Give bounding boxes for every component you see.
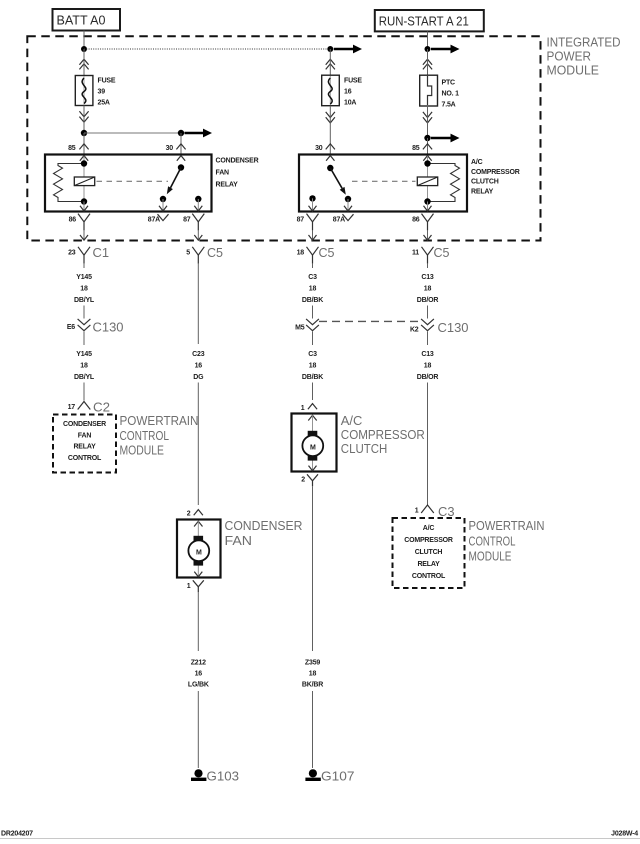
svg-text:86: 86 (412, 217, 420, 224)
svg-text:J028W-4: J028W-4 (611, 831, 638, 838)
node relay K2 coil bottom pin 86 (424, 198, 430, 204)
wire C13 lower segment (427, 332, 429, 346)
svg-text:25A: 25A (98, 100, 110, 107)
wire node to relay pin 85 left (83, 133, 85, 155)
pin 87A label (148, 217, 160, 224)
arrow fused B+ continues (185, 129, 213, 138)
wire a/c clutch pin 2 down (312, 486, 314, 651)
connector C130 name (right) (438, 321, 469, 335)
arrow a/c clutch pin 2 to box edge (309, 466, 317, 471)
svg-text:PTC: PTC (442, 80, 456, 87)
svg-text:C23: C23 (192, 351, 205, 358)
svg-text:16: 16 (344, 89, 352, 96)
connector C130 tie line (dashed) (319, 320, 421, 322)
relay K2 a/c compressor clutch relay box (299, 155, 467, 212)
junction node fused B+ left (81, 130, 87, 136)
svg-text:1: 1 (187, 583, 191, 590)
pin 11 label (412, 250, 419, 257)
svg-text:CONDENSER: CONDENSER (63, 421, 106, 428)
relay K1 coil wire and resistor (54, 156, 85, 202)
svg-text:FAN: FAN (78, 433, 92, 440)
pin 87 label (183, 217, 191, 224)
svg-text:COMPRESSOR: COMPRESSOR (404, 537, 453, 544)
svg-text:CLUTCH: CLUTCH (415, 549, 443, 556)
wire fused B+ branch (84, 132, 181, 134)
inline connection below fuse 16 (326, 112, 335, 123)
label A/C COMPRESSOR CLUTCH (341, 414, 425, 456)
pin 2 inner chevron condenser fan (194, 521, 202, 526)
svg-text:87A: 87A (148, 217, 160, 224)
label G107 (321, 770, 355, 784)
svg-text:30: 30 (315, 145, 323, 152)
connector C5 name (pin 11) (434, 246, 450, 260)
svg-text:RELAY: RELAY (216, 182, 239, 189)
svg-text:DB/YL: DB/YL (74, 297, 95, 304)
pin 17 label (68, 404, 76, 411)
wire PTC to node (427, 106, 429, 138)
svg-text:RELAY: RELAY (471, 188, 494, 195)
svg-text:18: 18 (424, 363, 432, 370)
svg-text:23: 23 (68, 250, 76, 257)
wire fuse 16 to relay pin 30 (329, 106, 331, 155)
svg-text:Y145: Y145 (76, 351, 92, 358)
wire node to relay pin 30 left (180, 133, 182, 155)
pin 85 entry chevron (79, 144, 88, 150)
svg-text:1: 1 (415, 508, 419, 515)
pin 30 inner chevron (177, 156, 185, 161)
arrow at IPM boundary (80, 235, 88, 240)
wire relay K2 pin 87 to C5 (312, 230, 314, 239)
connector C5 pin 11 Y symbol (422, 247, 434, 264)
pin 85 inner chevron (80, 156, 88, 161)
wire C3 to C130 (312, 306, 314, 319)
wire C23 from C5 (197, 264, 199, 344)
relay K2 actuating link (dashed) (352, 180, 416, 182)
pin 87A label a/c relay (333, 217, 345, 224)
pin 1 label PCM C3 (415, 508, 419, 515)
svg-text:M5: M5 (295, 325, 305, 332)
integrated power module boundary (dashed) (27, 36, 540, 240)
relay K2 coil wire and resistor (428, 156, 460, 202)
pin K2 label (410, 327, 419, 334)
svg-text:16: 16 (195, 671, 203, 678)
label INTEGRATED POWER MODULE (547, 36, 621, 78)
label POWERTRAIN CONTROL MODULE (right) (469, 519, 545, 564)
svg-text:2: 2 (187, 511, 191, 518)
svg-text:16: 16 (195, 363, 203, 370)
pin 86 connector Y a/c relay (422, 214, 434, 231)
connector C5 pin 18 Y symbol (307, 247, 319, 264)
svg-text:FAN: FAN (225, 534, 253, 548)
svg-text:DB/BK: DB/BK (302, 374, 323, 381)
connector C130 pin M5 chevrons (306, 319, 319, 331)
module output A/C COMPRESSOR CLUTCH RELAY CONTROL (dashed box) (393, 518, 465, 588)
svg-text:10A: 10A (344, 100, 356, 107)
arrow relay K2 pin 87A to box edge (344, 206, 352, 211)
svg-text:CONTROL: CONTROL (469, 534, 516, 548)
inline connection above PTC (423, 59, 432, 69)
svg-text:C3: C3 (308, 274, 317, 281)
pin 30 entry chevron (176, 144, 185, 150)
svg-text:LG/BK: LG/BK (188, 682, 209, 689)
svg-text:POWERTRAIN: POWERTRAIN (120, 414, 199, 428)
svg-text:RELAY: RELAY (73, 444, 96, 451)
svg-text:Z212: Z212 (191, 660, 206, 667)
wire Y145 upper segment (83, 264, 85, 268)
inline connection above fuse 39 (79, 59, 88, 69)
node relay K1 pin 30 switch (178, 164, 184, 170)
arrow PTC output continues (431, 134, 460, 143)
label PTC no.1 (442, 80, 460, 109)
svg-text:CONTROL: CONTROL (120, 429, 170, 443)
connector C130 name (left) (93, 321, 124, 335)
arrow relay K1 pin 87A to box edge (159, 206, 167, 211)
wire label C13 18 DB/OR (upper) (417, 274, 439, 304)
ground G107 (305, 769, 320, 781)
arrow at IPM boundary (424, 235, 432, 240)
svg-text:FAN: FAN (216, 170, 230, 177)
svg-text:CONTROL: CONTROL (68, 455, 102, 462)
condenser fan box (177, 520, 221, 578)
node relay K2 pin 85 coil top (424, 160, 430, 166)
label CONDENSER FAN (225, 519, 303, 548)
pin 85 label (condenser fan relay) (68, 145, 76, 152)
arrow at IPM boundary (194, 235, 202, 240)
svg-text:POWERTRAIN: POWERTRAIN (469, 519, 545, 533)
wire label C3 18 DB/BK (lower) (302, 351, 323, 381)
connector C5 name (pin 5) (207, 246, 223, 260)
svg-text:G103: G103 (207, 770, 240, 784)
junction node relay pin 30 branch (178, 130, 184, 136)
wire label Y145 18 DB/YL (lower) (74, 351, 95, 381)
wire relay K1 pin 87 to C5 (197, 230, 199, 239)
wire label Z212 16 LG/BK (188, 660, 209, 689)
relay K1 actuating link (dashed) (97, 180, 169, 182)
pin 1 inner chevron a/c clutch (308, 415, 316, 420)
ground G103 (191, 769, 206, 781)
wire label C23 16 DG (192, 351, 205, 381)
svg-text:87A: 87A (333, 217, 345, 224)
svg-text:DG: DG (193, 374, 204, 381)
node relay K1 coil bottom pin 86 (81, 198, 87, 204)
label fuse 39 (98, 78, 116, 107)
wire relay K2 pin 87 inside (312, 198, 314, 210)
connector C3 pin 1 symbol (421, 505, 434, 513)
svg-text:7.5A: 7.5A (442, 102, 456, 109)
inline connection above fuse 16 (326, 59, 335, 69)
wire label Y145 18 DB/YL (upper) (74, 274, 95, 304)
module output CONDENSER FAN RELAY CONTROL (dashed box) (53, 415, 116, 473)
pin 87 connector Y (192, 214, 204, 231)
svg-text:CLUTCH: CLUTCH (471, 179, 499, 186)
wire C3 upper segment (312, 264, 314, 268)
wire relay K2 pin 86 to C5 (427, 230, 429, 239)
wire relay K1 pin 86 to C1 (83, 230, 85, 239)
pin 87A open chevron (158, 214, 169, 220)
svg-text:K2: K2 (410, 327, 419, 334)
svg-text:MODULE: MODULE (469, 549, 512, 563)
arrow at IPM boundary (309, 235, 317, 240)
relay K2 coil symbol (417, 177, 437, 186)
pin M5 label (295, 325, 305, 332)
junction node RUN-START bus (425, 46, 431, 52)
pin 1 label condenser fan (187, 583, 191, 590)
wire Y145 to C130 (83, 306, 85, 319)
wire condenser fan pin 1 down (197, 592, 199, 651)
svg-text:C130: C130 (93, 321, 124, 335)
svg-text:C3: C3 (308, 351, 317, 358)
power source box RUN-START A21 (375, 10, 484, 31)
label fuse 16 (344, 78, 362, 107)
svg-text:E6: E6 (67, 324, 75, 331)
svg-text:18: 18 (80, 363, 88, 370)
relay K2 switch arm (330, 168, 346, 195)
wire BATT bus (dotted) (84, 48, 330, 50)
wire C13 to PCM C3 (427, 383, 429, 505)
arrow condenser fan pin 1 to box edge (194, 572, 202, 577)
svg-text:MODULE: MODULE (120, 444, 165, 458)
wire into fuse 39 (83, 49, 85, 76)
pin 85 entry chevron a/c relay (423, 144, 432, 150)
svg-text:A/C: A/C (341, 414, 363, 428)
PTC no.1 7.5A (420, 75, 438, 106)
svg-text:39: 39 (98, 89, 106, 96)
pin 2 label condenser fan (187, 511, 191, 518)
wire Y145 lower segment (83, 332, 85, 346)
pin 1 entry chevron a/c clutch (308, 404, 317, 410)
pin 87 label a/c relay (297, 217, 305, 224)
svg-text:BK/BR: BK/BR (302, 682, 323, 689)
svg-text:DB/YL: DB/YL (74, 374, 95, 381)
svg-text:DR204207: DR204207 (1, 831, 33, 838)
svg-text:DB/OR: DB/OR (417, 374, 439, 381)
wire BATT A0 drop (83, 31, 85, 50)
label CONDENSER FAN RELAY (216, 157, 259, 188)
relay K1 condenser fan relay box (45, 155, 212, 212)
pin 86 connector Y (78, 214, 90, 231)
motor M2 condenser fan (188, 536, 209, 566)
wire C23 to condenser fan (197, 383, 199, 506)
svg-text:5: 5 (186, 250, 190, 257)
svg-text:Z359: Z359 (305, 660, 320, 667)
svg-text:RELAY: RELAY (417, 561, 440, 568)
arrow relay K1 pin 86 to box edge (80, 206, 88, 211)
junction node PTC output (424, 135, 430, 141)
svg-text:M: M (196, 549, 202, 556)
condenser fan motor wire (197, 521, 199, 576)
relay K1 coil symbol (74, 177, 94, 186)
label POWERTRAIN CONTROL MODULE (left) (120, 414, 199, 458)
connector C130 pin K2 chevrons (421, 319, 434, 331)
svg-text:BATT A0: BATT A0 (57, 14, 106, 28)
wire label Z359 18 BK/BR (302, 660, 323, 689)
pin 5 label (186, 250, 190, 257)
arrow relay K1 pin 87 to box edge (194, 206, 202, 211)
label A/C COMPRESSOR CLUTCH RELAY (471, 159, 520, 196)
junction node BATT bus right (327, 46, 333, 52)
svg-text:Y145: Y145 (76, 274, 92, 281)
svg-text:85: 85 (68, 145, 76, 152)
arrow relay K2 pin 86 to box edge (424, 206, 432, 211)
svg-text:C13: C13 (421, 274, 434, 281)
relay K1 switch arm (167, 168, 181, 195)
pin 30 entry chevron a/c relay (326, 144, 335, 150)
connector C130 pin E6 chevrons (78, 319, 91, 331)
svg-text:DB/OR: DB/OR (417, 297, 439, 304)
arrow RUN-START bus continues (431, 45, 460, 54)
svg-text:C130: C130 (438, 321, 469, 335)
label G103 (207, 770, 240, 784)
wire relay K1 pin 87A stub (162, 199, 164, 211)
svg-text:FUSE: FUSE (98, 78, 116, 85)
pin 87 connector Y a/c relay (307, 214, 319, 231)
svg-text:17: 17 (68, 404, 76, 411)
svg-text:POWER: POWER (547, 50, 592, 64)
wire into fuse 16 (329, 49, 331, 75)
wire relay K2 pin 87A stub (347, 199, 349, 211)
wire PTC node to relay pin 85 (427, 138, 429, 155)
node relay K2 pin 87A (345, 196, 351, 202)
svg-text:18: 18 (309, 671, 317, 678)
node relay K1 pin 87 (195, 196, 201, 202)
footer sheet number J028W-4 (611, 831, 638, 838)
wire C3 lower segment (312, 332, 314, 346)
wire Y145 to C2 (83, 383, 85, 401)
svg-text:CONTROL: CONTROL (412, 573, 446, 580)
svg-text:2: 2 (301, 477, 305, 484)
node relay K1 pin 85 coil top (81, 160, 87, 166)
motor M1 a/c compressor clutch (302, 431, 323, 461)
wire fuse 39 to node (83, 106, 85, 134)
node relay K1 pin 87A (160, 196, 166, 202)
pin 2 label a/c clutch (301, 477, 305, 484)
connector C2 name (93, 401, 110, 415)
pin 30 label (a/c relay) (315, 145, 323, 152)
connector C5 name (pin 18) (319, 246, 335, 260)
arrow BATT bus continues (334, 45, 362, 54)
wire relay K1 pin 87 inside (197, 199, 199, 211)
svg-text:87: 87 (297, 217, 305, 224)
arrow relay K2 pin 87 to box edge (309, 206, 317, 211)
svg-text:30: 30 (166, 145, 174, 152)
svg-text:18: 18 (309, 286, 317, 293)
connector C2 pin 17 symbol (78, 402, 91, 410)
wire Z359 to ground (312, 691, 314, 768)
pin 87A open chevron a/c relay (343, 214, 354, 220)
svg-text:86: 86 (69, 217, 77, 224)
svg-text:18: 18 (424, 286, 432, 293)
wire RUN-START drop (427, 31, 429, 49)
svg-text:A/C: A/C (471, 159, 483, 166)
wire relay K2 pin 86 inside (427, 202, 429, 211)
wire label C13 18 DB/OR (lower) (417, 351, 439, 381)
svg-text:11: 11 (412, 250, 419, 257)
fuse 16 10A (322, 75, 340, 106)
node relay K2 pin 87 (309, 195, 315, 201)
pin 1 connector Y condenser fan (193, 580, 204, 592)
wire C3 to a/c clutch (312, 383, 314, 401)
connector C3 name (438, 505, 455, 519)
svg-text:CONDENSER: CONDENSER (225, 519, 303, 533)
svg-text:A/C: A/C (423, 525, 435, 532)
pin 23 label (68, 250, 76, 257)
a/c clutch motor wire (312, 415, 314, 470)
bottom edge line (0, 838, 640, 839)
svg-text:COMPRESSOR: COMPRESSOR (471, 169, 520, 176)
svg-text:C1: C1 (93, 246, 110, 260)
svg-text:87: 87 (183, 217, 191, 224)
svg-text:18: 18 (309, 363, 317, 370)
svg-text:C2: C2 (93, 401, 110, 415)
pin 30 inner chevron a/c relay (326, 156, 334, 161)
pin 85 inner chevron a/c relay (423, 156, 431, 161)
inline connection below PTC (423, 112, 432, 123)
connector C5 pin 5 Y symbol (192, 247, 204, 264)
a/c compressor clutch box (292, 414, 337, 472)
junction node BATT bus left (81, 46, 87, 52)
svg-text:18: 18 (297, 250, 305, 257)
svg-text:C5: C5 (434, 246, 450, 260)
pin 86 label (69, 217, 77, 224)
svg-text:CONDENSER: CONDENSER (216, 157, 259, 164)
pin 1 label a/c clutch (301, 405, 305, 412)
footer diagram number DR204207 (1, 831, 33, 838)
svg-text:INTEGRATED: INTEGRATED (547, 36, 621, 50)
pin 18 label (297, 250, 305, 257)
svg-text:85: 85 (412, 145, 420, 152)
svg-text:M: M (310, 444, 316, 451)
svg-text:G107: G107 (321, 770, 355, 784)
fuse 39 25A (75, 76, 93, 106)
svg-text:C3: C3 (438, 505, 455, 519)
pin E6 label (67, 324, 75, 331)
wire C13 to C130 (427, 306, 429, 319)
power source box BATT A0 (53, 9, 121, 31)
svg-text:C5: C5 (207, 246, 223, 260)
pin 85 label (a/c relay) (412, 145, 420, 152)
pin 30 label (condenser fan relay) (166, 145, 174, 152)
pin 2 entry chevron condenser fan (194, 510, 203, 516)
svg-text:FUSE: FUSE (344, 78, 362, 85)
pin 2 connector Y a/c clutch (307, 474, 318, 486)
wire C13 upper segment (427, 264, 429, 268)
svg-text:RUN-START A 21: RUN-START A 21 (379, 14, 469, 28)
svg-text:C5: C5 (319, 246, 335, 260)
wire into PTC (427, 49, 429, 75)
wire relay K1 pin 86 inside (83, 202, 85, 211)
inline connection below fuse 39 (79, 111, 88, 122)
wire Z212 to ground (197, 691, 199, 768)
wire label C3 18 DB/BK (upper) (302, 274, 323, 304)
svg-text:NO. 1: NO. 1 (442, 91, 460, 98)
svg-text:1: 1 (301, 405, 305, 412)
svg-text:18: 18 (80, 286, 88, 293)
node relay K2 pin 30 switch (327, 165, 333, 171)
svg-text:COMPRESSOR: COMPRESSOR (341, 428, 425, 442)
connector C1 pin 23 Y symbol (78, 247, 90, 264)
svg-text:CLUTCH: CLUTCH (341, 442, 388, 456)
svg-text:MODULE: MODULE (547, 64, 600, 78)
pin 86 label a/c relay (412, 217, 420, 224)
svg-text:C13: C13 (421, 351, 434, 358)
connector C1 name (93, 246, 110, 260)
svg-text:DB/BK: DB/BK (302, 297, 323, 304)
